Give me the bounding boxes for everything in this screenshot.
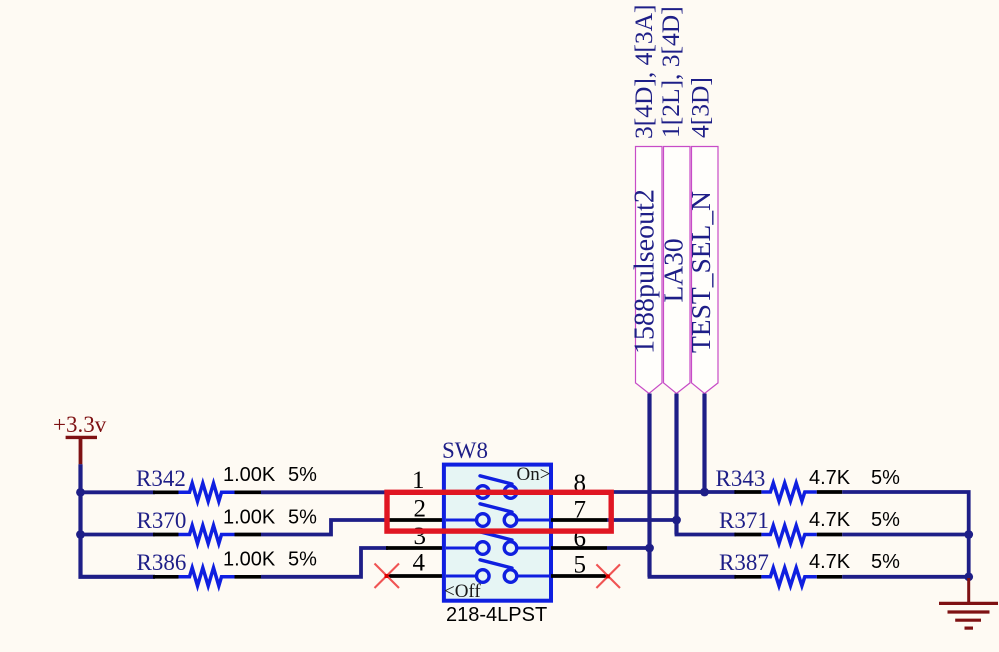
pin number 1 xyxy=(412,467,425,494)
wire flag1 vertical drop to pin6 row and R387 row xyxy=(647,394,651,577)
switch element 2 (pins 2-7) xyxy=(446,504,549,527)
power symbol +3.3v xyxy=(53,412,107,464)
wire flag3 vertical drop to pin8 row xyxy=(702,394,706,493)
label R386 xyxy=(137,550,187,575)
label R371 xyxy=(719,508,769,533)
resistor R387 xyxy=(734,568,842,586)
svg-text:3: 3 xyxy=(414,523,427,550)
wire R370 to pin2 with jog up xyxy=(261,520,388,535)
pin number 3 xyxy=(414,523,427,550)
pin number 8 xyxy=(574,470,587,497)
svg-text:5%: 5% xyxy=(288,464,317,486)
svg-text:4.7K: 4.7K xyxy=(809,551,851,573)
net name LA30 xyxy=(658,238,689,302)
switch label <Off xyxy=(444,581,481,602)
svg-text:LA30: LA30 xyxy=(658,238,689,302)
svg-text:5%: 5% xyxy=(871,467,900,489)
pin number 7 xyxy=(574,497,587,524)
junction dot flag3/row1 xyxy=(700,488,709,497)
tolerance 5% (R342) xyxy=(288,464,317,486)
pin 5 lead (unconnected) xyxy=(551,574,608,578)
off-page flag TEST_SEL_N xyxy=(692,147,719,394)
svg-text:On>: On> xyxy=(517,464,551,485)
svg-text:2: 2 xyxy=(414,496,427,523)
wire row1 left (rail to R342) xyxy=(81,490,156,494)
value 4.7K (R387) xyxy=(809,551,851,573)
tolerance 5% (R370) xyxy=(288,507,317,529)
svg-text:R370: R370 xyxy=(137,508,187,533)
resistor R343 xyxy=(734,483,842,501)
svg-text:5%: 5% xyxy=(288,549,317,571)
svg-text:SW8: SW8 xyxy=(442,438,488,463)
svg-text:<Off: <Off xyxy=(444,581,481,602)
resistor R386 xyxy=(153,568,261,586)
wire pin8 row to R343 xyxy=(607,490,736,494)
tolerance 5% (R343) xyxy=(871,467,900,489)
net name 1588pulseout2 xyxy=(630,189,661,354)
pin number 5 xyxy=(574,552,587,579)
pin 2 lead xyxy=(386,518,444,522)
svg-text:4[3D]: 4[3D] xyxy=(686,77,715,138)
switch element 3 (pins 3-6) xyxy=(446,532,549,555)
junction dot rail/row1 xyxy=(76,488,85,497)
svg-text:5%: 5% xyxy=(871,551,900,573)
pin 4 lead (unconnected) xyxy=(386,574,444,578)
label R342 xyxy=(136,466,186,491)
no-connect X at pin 5 xyxy=(596,564,620,588)
wire left rail vertical xyxy=(81,464,156,577)
wire R342 to pin1 xyxy=(261,490,388,494)
svg-text:R371: R371 xyxy=(719,508,769,533)
svg-text:R342: R342 xyxy=(136,466,186,491)
label R370 xyxy=(137,508,187,533)
switch SW8 body xyxy=(444,465,551,601)
svg-text:1.00K: 1.00K xyxy=(223,507,276,529)
wire flag2 jog down to R371 row xyxy=(677,520,737,535)
wire R371 to right rail xyxy=(842,533,969,537)
svg-text:TEST_SEL_N: TEST_SEL_N xyxy=(685,191,716,353)
svg-text:1[2L], 3[4D]: 1[2L], 3[4D] xyxy=(656,6,685,138)
junction dot rail/R387/ground xyxy=(964,572,973,581)
tolerance 5% (R387) xyxy=(871,551,900,573)
value 1.00K (R386) xyxy=(223,549,276,571)
resistor R371 xyxy=(734,526,842,544)
svg-text:4.7K: 4.7K xyxy=(809,509,851,531)
svg-text:1.00K: 1.00K xyxy=(223,549,276,571)
pin 8 lead xyxy=(551,490,607,494)
junction dot rail/R371 xyxy=(964,530,973,539)
pin 3 lead xyxy=(386,546,444,550)
svg-text:+3.3v: +3.3v xyxy=(53,412,107,437)
highlight rectangle (red) xyxy=(387,492,611,531)
no-connect X at pin 4 xyxy=(375,564,400,589)
switch element 1 (pins 1-8) xyxy=(446,476,549,499)
junction dot flag2/pin7 xyxy=(672,516,681,525)
pin number 6 xyxy=(574,525,587,552)
svg-text:218-4LPST: 218-4LPST xyxy=(446,604,547,626)
junction dot rail/R370 row xyxy=(76,530,85,539)
junction dot flag1/pin6 xyxy=(645,544,654,553)
wire pin7 row to flag2 drop xyxy=(607,518,677,522)
tolerance 5% (R386) xyxy=(288,549,317,571)
page reference text 1[2L], 3[4D] xyxy=(656,6,685,138)
pin number 2 xyxy=(414,496,427,523)
part number 218-4LPST xyxy=(446,604,547,626)
value 1.00K (R370) xyxy=(223,507,276,529)
value 4.7K (R343) xyxy=(809,467,851,489)
page reference text 3[4D], 4[3A] xyxy=(629,4,658,139)
resistor R370 xyxy=(153,526,261,544)
svg-text:3[4D], 4[3A]: 3[4D], 4[3A] xyxy=(629,4,658,139)
pin 1 lead xyxy=(386,490,444,494)
pin 7 lead xyxy=(551,518,607,522)
svg-text:4: 4 xyxy=(413,550,426,577)
svg-text:R387: R387 xyxy=(719,550,769,575)
tolerance 5% (R371) xyxy=(871,509,900,531)
off-page flag 1588pulseout2 xyxy=(636,147,663,394)
switch element 4 (pins 4-5) xyxy=(446,560,549,583)
page reference text 4[3D] xyxy=(686,77,715,138)
value 1.00K (R342) xyxy=(223,464,276,486)
svg-text:1.00K: 1.00K xyxy=(223,464,276,486)
svg-text:4.7K: 4.7K xyxy=(809,467,851,489)
pin 6 lead xyxy=(551,546,607,550)
svg-text:1588pulseout2: 1588pulseout2 xyxy=(630,189,661,354)
wire pin6 row to flag1 drop xyxy=(607,546,650,550)
svg-text:5%: 5% xyxy=(288,507,317,529)
value 4.7K (R371) xyxy=(809,509,851,531)
off-page flag LA30 xyxy=(664,147,691,394)
label R387 xyxy=(719,550,769,575)
switch label On> xyxy=(517,464,551,485)
resistor R342 xyxy=(153,483,261,501)
wire flag1 jog down to R387 row xyxy=(650,548,737,577)
label R343 xyxy=(716,466,766,491)
pin number 4 xyxy=(413,550,426,577)
label SW8 xyxy=(442,438,488,463)
wire flag2 vertical drop to pin7 row xyxy=(674,394,678,535)
svg-text:R386: R386 xyxy=(137,550,187,575)
svg-text:R343: R343 xyxy=(716,466,766,491)
wire row R370 left (rail to R370) xyxy=(81,533,156,537)
net name TEST_SEL_N xyxy=(685,191,716,353)
ground symbol xyxy=(939,578,998,628)
wire R343 to right rail xyxy=(842,492,969,577)
wire R387 to right rail xyxy=(842,575,969,579)
svg-text:5%: 5% xyxy=(871,509,900,531)
wire R386 to pin3 with jog up xyxy=(261,548,388,577)
